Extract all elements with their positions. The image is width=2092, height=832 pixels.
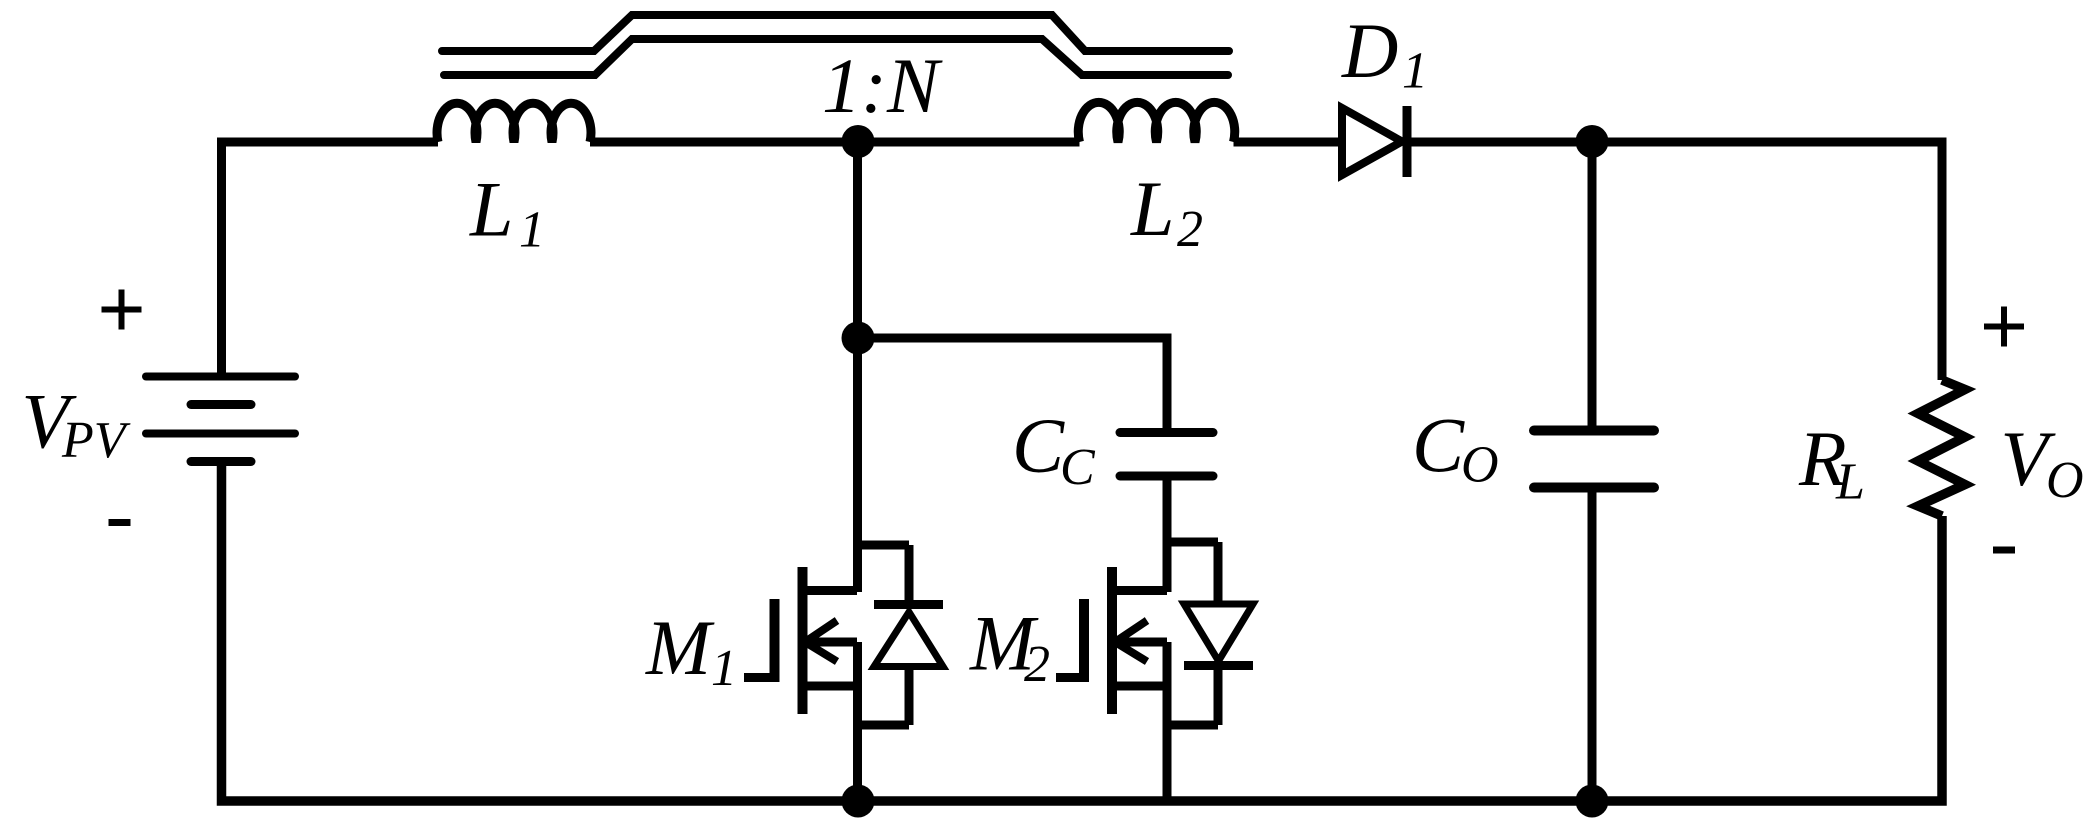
svg-text:C: C	[1060, 439, 1096, 496]
svg-text:D: D	[1341, 7, 1398, 94]
svg-text:PV: PV	[61, 412, 131, 469]
svg-text:1:N: 1:N	[822, 42, 943, 129]
svg-text:M: M	[645, 604, 715, 691]
svg-text:2: 2	[1177, 201, 1203, 258]
svg-text:1: 1	[711, 640, 737, 697]
svg-text:C: C	[1012, 402, 1065, 489]
svg-text:2: 2	[1024, 636, 1050, 693]
svg-text:L: L	[1130, 165, 1174, 252]
svg-text:1: 1	[1402, 43, 1428, 100]
svg-text:C: C	[1412, 402, 1465, 489]
svg-text:1: 1	[519, 202, 545, 259]
svg-text:O: O	[1461, 437, 1499, 494]
svg-text:L: L	[1835, 454, 1865, 511]
svg-text:O: O	[2046, 452, 2084, 509]
svg-text:L: L	[469, 166, 513, 253]
